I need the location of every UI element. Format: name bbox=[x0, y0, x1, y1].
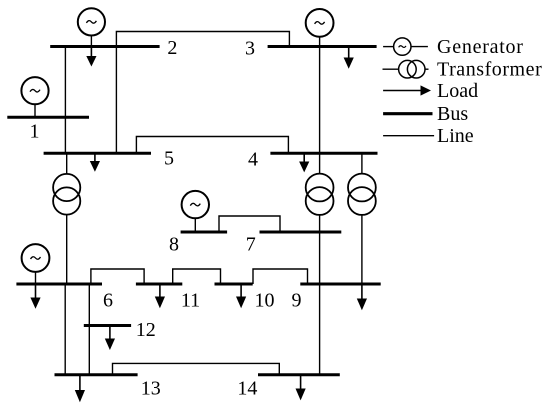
wire 6-11 bbox=[91, 269, 144, 284]
wire 4-5 bbox=[136, 137, 288, 154]
bus 11 bbox=[136, 283, 182, 286]
transformer 5-6 bbox=[53, 153, 80, 284]
bus 10 bbox=[215, 283, 253, 286]
wire 9-14 bbox=[319, 284, 321, 375]
bus 3 bbox=[268, 45, 377, 48]
bus 4 bbox=[270, 152, 377, 155]
svg-text:6: 6 bbox=[103, 290, 113, 312]
transformer 4-9 bbox=[348, 153, 376, 284]
wire 7-9 bbox=[319, 232, 321, 284]
svg-text:4: 4 bbox=[248, 149, 258, 171]
generator G3 bbox=[306, 9, 334, 47]
load at bus 5 bbox=[90, 153, 100, 172]
load at bus 2 bbox=[86, 47, 96, 67]
load at bus 4 bbox=[299, 153, 309, 172]
svg-text:13: 13 bbox=[141, 378, 161, 400]
wire 13-14 bbox=[113, 363, 280, 374]
load at bus 10 bbox=[236, 284, 246, 308]
svg-text:1: 1 bbox=[30, 121, 40, 143]
wire 9-10 bbox=[253, 269, 308, 284]
load at bus 6 bbox=[30, 284, 40, 309]
bus 14 bbox=[258, 373, 340, 376]
legend line symbol bbox=[383, 135, 434, 137]
svg-text:Generator: Generator bbox=[437, 36, 524, 58]
bus 12 bbox=[84, 324, 131, 327]
bus 8 bbox=[181, 231, 228, 234]
svg-text:10: 10 bbox=[255, 290, 275, 312]
svg-text:2: 2 bbox=[167, 37, 177, 59]
bus 5 bbox=[44, 152, 151, 155]
bus 2 bbox=[50, 45, 159, 48]
svg-text:5: 5 bbox=[164, 148, 174, 170]
generator G6 bbox=[22, 244, 50, 284]
transformer 4-7 bbox=[306, 153, 334, 232]
svg-text:8: 8 bbox=[169, 234, 179, 256]
bus 13 bbox=[55, 373, 138, 376]
wire 12-13 bbox=[88, 326, 90, 375]
svg-text:Line: Line bbox=[437, 125, 474, 147]
wire 3-4 bbox=[319, 47, 321, 154]
svg-text:9: 9 bbox=[292, 290, 302, 312]
svg-text:14: 14 bbox=[237, 378, 257, 400]
svg-text:Bus: Bus bbox=[437, 103, 468, 125]
load at bus 14 bbox=[296, 375, 306, 401]
load at bus 11 bbox=[155, 284, 165, 308]
load at bus 9 bbox=[357, 284, 367, 310]
wire 10-11 bbox=[173, 269, 221, 284]
svg-text:Load: Load bbox=[437, 80, 478, 102]
wire 2-5 bbox=[115, 47, 117, 154]
bus 6 bbox=[16, 283, 102, 286]
legend load symbol bbox=[383, 85, 431, 95]
wire 6-12 bbox=[88, 284, 90, 326]
load at bus 3 bbox=[344, 47, 354, 69]
generator G2 bbox=[78, 8, 105, 46]
wire 1-5 bbox=[64, 117, 66, 153]
svg-text:3: 3 bbox=[245, 38, 255, 60]
svg-text:11: 11 bbox=[181, 290, 200, 312]
svg-text:Transformer: Transformer bbox=[437, 59, 542, 81]
wire 6-13 bbox=[64, 284, 66, 375]
bus 1 bbox=[7, 116, 89, 119]
load at bus 13 bbox=[75, 375, 85, 402]
svg-text:7: 7 bbox=[246, 234, 256, 256]
generator G1 bbox=[21, 77, 48, 117]
legend generator symbol bbox=[383, 38, 428, 55]
svg-text:12: 12 bbox=[136, 319, 156, 341]
generator G8 bbox=[182, 191, 209, 232]
wire 2-3 bbox=[116, 32, 289, 48]
legend bus symbol bbox=[383, 112, 432, 115]
bus 9 bbox=[300, 283, 380, 286]
wire 7-8 bbox=[219, 216, 280, 232]
wire 1-2 bbox=[64, 47, 66, 118]
bus 7 bbox=[260, 231, 342, 234]
load at bus 12 bbox=[105, 326, 115, 351]
legend transformer symbol bbox=[383, 60, 429, 78]
